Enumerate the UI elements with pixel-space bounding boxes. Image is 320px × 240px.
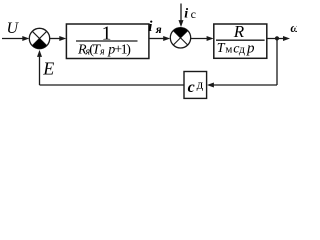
svg-text:с: с	[191, 7, 196, 21]
block W2: R/(Tм сд p)	[214, 22, 267, 58]
svg-text:д: д	[197, 76, 204, 91]
block W1: 1/(Rя(Tя p+1))	[66, 23, 148, 59]
svg-text:U: U	[7, 20, 20, 37]
wire feedback up into S1	[39, 56, 41, 85]
svg-text:ω: ω	[290, 21, 297, 35]
svg-text:R: R	[233, 22, 245, 41]
summing junction S2	[170, 28, 190, 48]
svg-text:i: i	[184, 7, 188, 22]
wire feedback left segment	[40, 84, 185, 86]
wire W2 to output ω	[267, 38, 284, 40]
wire feedback vertical from junction	[276, 39, 278, 86]
svg-text:): )	[126, 42, 131, 57]
block сд (feedback gain)	[184, 72, 207, 99]
svg-text:E: E	[42, 59, 54, 79]
wire S1 to block W1	[50, 38, 61, 40]
svg-text:я: я	[99, 46, 105, 57]
svg-text:я: я	[155, 24, 162, 36]
svg-text:д: д	[239, 42, 245, 56]
wire feedback right segment into сд block	[213, 84, 278, 86]
svg-text:p: p	[246, 40, 255, 56]
svg-text:с: с	[188, 79, 195, 96]
svg-text:м: м	[225, 44, 232, 56]
node junction dot	[275, 36, 279, 40]
wire iс input down into S2	[180, 4, 182, 22]
summing junction S1	[29, 28, 49, 48]
wire S2 to block W2	[191, 38, 209, 40]
wire input U to summing junction S1	[2, 38, 24, 40]
wire W1 to summing junction S2	[149, 38, 164, 40]
